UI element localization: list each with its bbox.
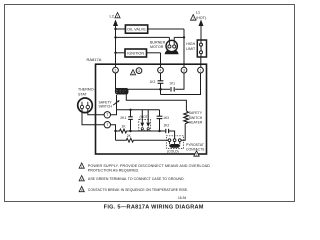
svg-text:BURNER: BURNER xyxy=(150,40,166,44)
svg-text:SWITCH: SWITCH xyxy=(99,105,113,109)
svg-text:G: G xyxy=(138,69,141,73)
svg-text:STAT: STAT xyxy=(78,92,87,96)
svg-text:3: 3 xyxy=(183,68,185,72)
svg-text:PROTECTION AS REQUIRED.: PROTECTION AS REQUIRED. xyxy=(88,169,139,173)
svg-text:CONTACTS BREAK IN SEQUENCE ON: CONTACTS BREAK IN SEQUENCE ON TEMPERATUR… xyxy=(88,188,188,192)
svg-text:USE GREEN TERMINAL TO CONNECT: USE GREEN TERMINAL TO CONNECT CASE TO GR… xyxy=(88,177,185,181)
svg-text:LIMIT: LIMIT xyxy=(186,47,196,51)
svg-text:2K: 2K xyxy=(127,134,132,138)
svg-text:4: 4 xyxy=(160,68,162,72)
svg-text:1K1: 1K1 xyxy=(169,81,175,85)
svg-text:PYROSTAT: PYROSTAT xyxy=(186,143,204,147)
svg-text:OIL VALVE: OIL VALVE xyxy=(127,28,146,32)
svg-text:HEATER: HEATER xyxy=(189,120,203,124)
svg-text:HIGH: HIGH xyxy=(186,42,195,46)
svg-text:(COLD): (COLD) xyxy=(167,149,179,153)
svg-text:SAFETY: SAFETY xyxy=(189,111,203,115)
svg-text:1K2: 1K2 xyxy=(150,80,156,84)
svg-text:L1: L1 xyxy=(196,10,201,15)
svg-text:2K1: 2K1 xyxy=(120,116,126,120)
svg-text:MOTOR: MOTOR xyxy=(150,45,164,49)
svg-text:(HOT): (HOT) xyxy=(140,115,149,119)
svg-text:IGNITION: IGNITION xyxy=(127,52,144,56)
svg-text:POWER SUPPLY. PROVIDE DISCONNE: POWER SUPPLY. PROVIDE DISCONNECT MEANS A… xyxy=(88,164,210,168)
svg-text:2K2: 2K2 xyxy=(164,124,170,128)
svg-text:1K: 1K xyxy=(122,125,127,129)
svg-text:2: 2 xyxy=(115,68,117,72)
svg-text:CONTACTS: CONTACTS xyxy=(186,147,205,151)
svg-text:16-94: 16-94 xyxy=(178,196,186,200)
svg-text:1: 1 xyxy=(200,68,202,72)
svg-text:SWITCH: SWITCH xyxy=(189,116,203,120)
svg-text:L2: L2 xyxy=(110,13,115,18)
svg-text:RA817A: RA817A xyxy=(87,57,102,62)
svg-text:FIG. 5—RA817A WIRING DIAGRAM: FIG. 5—RA817A WIRING DIAGRAM xyxy=(104,204,204,209)
svg-text:1K3: 1K3 xyxy=(163,116,169,120)
svg-text:THERMO-: THERMO- xyxy=(78,88,96,92)
svg-text:(HOT): (HOT) xyxy=(196,16,206,20)
